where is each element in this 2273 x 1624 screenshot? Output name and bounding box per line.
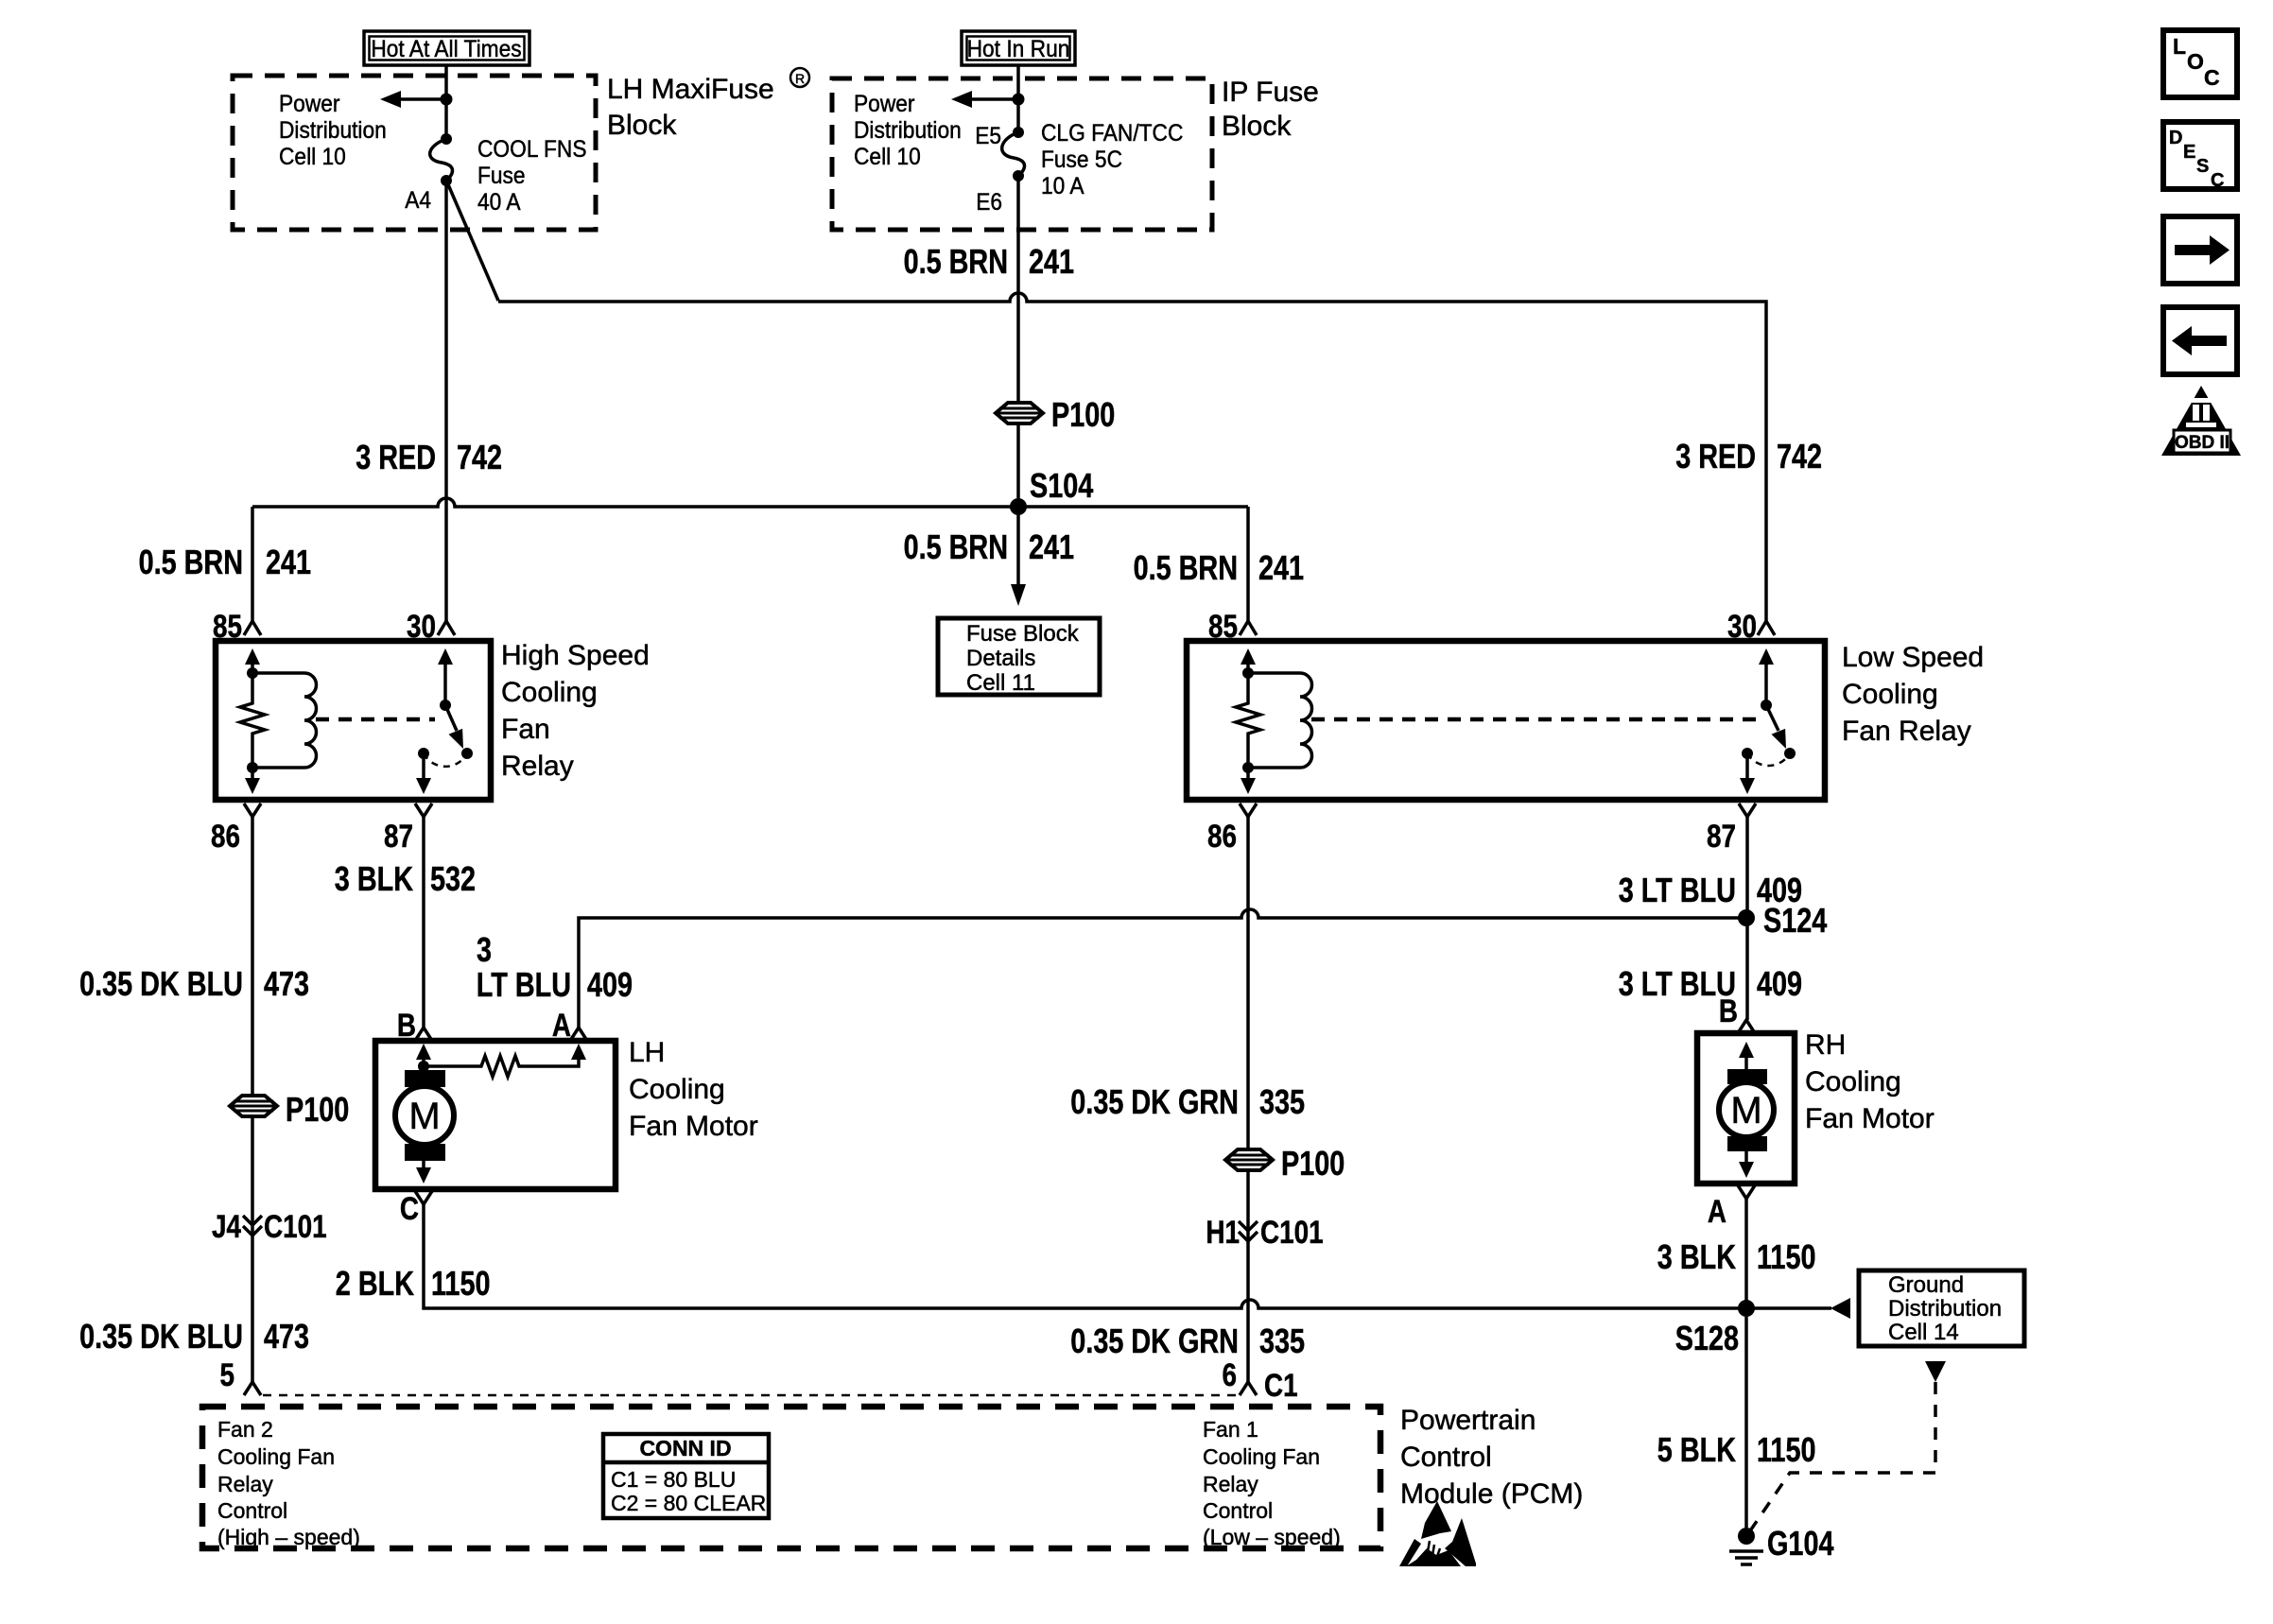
svg-text:(Low – speed): (Low – speed) xyxy=(1203,1525,1341,1549)
wire A4 down to relay 30 xyxy=(444,181,448,622)
svg-text:Relay: Relay xyxy=(217,1472,273,1496)
svg-text:Details: Details xyxy=(966,646,1035,671)
svg-text:0.35 DK BLU: 0.35 DK BLU xyxy=(79,964,243,1003)
svg-text:0.35 DK BLU: 0.35 DK BLU xyxy=(79,1317,243,1356)
wire LH motor A up and right to S124 (3 LT BLU 409, hop over DK GRN wire) xyxy=(579,909,1746,1028)
svg-text:742: 742 xyxy=(457,438,502,476)
svg-text:L: L xyxy=(2173,34,2186,59)
Power Distribution Cell 10 text (LH block) xyxy=(279,91,387,170)
svg-text:2 BLK: 2 BLK xyxy=(336,1264,414,1303)
icon forward arrow box (margin) xyxy=(2163,216,2237,284)
connector pass-through P100 (top) xyxy=(996,395,1115,434)
pin 87 (LS) xyxy=(1707,803,1756,855)
table CONN ID xyxy=(603,1434,769,1518)
relay coil branch (LS) xyxy=(1236,648,1312,794)
value label COOL FNS Fuse 40 A xyxy=(477,136,587,216)
wire label 0.35 DK BLU 473 (upper) xyxy=(79,964,309,1003)
wire S128 down to G104 (5 BLK 1150) xyxy=(1744,1317,1748,1528)
svg-text:C: C xyxy=(400,1191,419,1227)
svg-text:Fuse: Fuse xyxy=(477,163,526,189)
wire from Hot In Run into IP fuse xyxy=(1016,65,1020,132)
svg-text:Fan: Fan xyxy=(501,714,550,745)
fuse CLG FAN/TCC 10 A xyxy=(1002,127,1025,181)
svg-text:Block: Block xyxy=(1222,111,1292,142)
svg-text:Distribution: Distribution xyxy=(854,117,962,144)
icon back arrow box (margin) xyxy=(2163,307,2237,374)
wire label 3 BLK 1150 xyxy=(1657,1237,1816,1276)
svg-text:241: 241 xyxy=(1029,527,1074,566)
svg-text:LH: LH xyxy=(629,1037,665,1068)
relay actuating dashed link (LS) xyxy=(1311,717,1756,722)
Power Distribution Cell 10 text (IP block) xyxy=(854,91,962,170)
svg-text:S104: S104 xyxy=(1030,466,1093,505)
svg-text:Cell 14: Cell 14 xyxy=(1888,1320,1959,1345)
wire E6 down to P100 xyxy=(1016,176,1020,498)
icon LOC box (margin) xyxy=(2163,30,2237,97)
svg-text:C: C xyxy=(2211,170,2224,191)
svg-text:87: 87 xyxy=(384,819,413,855)
svg-text:532: 532 xyxy=(430,859,476,898)
svg-text:Control: Control xyxy=(1203,1498,1273,1523)
svg-text:Control: Control xyxy=(1400,1442,1492,1473)
svg-text:Fan 2: Fan 2 xyxy=(217,1417,273,1442)
motor M1 LH Cooling Fan Motor box xyxy=(375,1041,616,1189)
svg-text:LH MaxiFuse: LH MaxiFuse xyxy=(607,74,774,105)
svg-text:335: 335 xyxy=(1259,1082,1305,1121)
svg-text:30: 30 xyxy=(407,609,436,645)
motor name RH Cooling Fan Motor xyxy=(1805,1029,1935,1134)
svg-text:Ground: Ground xyxy=(1888,1272,1964,1298)
svg-text:RH: RH xyxy=(1805,1029,1846,1061)
svg-text:Cooling: Cooling xyxy=(501,677,598,708)
svg-text:1150: 1150 xyxy=(431,1264,491,1303)
svg-text:1150: 1150 xyxy=(1757,1237,1816,1276)
svg-text:S124: S124 xyxy=(1763,901,1827,940)
wire diagonal from fuse to top feed line xyxy=(447,182,498,301)
wire label 3 RED 742 (right) xyxy=(1675,437,1822,475)
splice S104 xyxy=(1010,466,1093,515)
svg-text:Cooling Fan: Cooling Fan xyxy=(1203,1444,1320,1469)
svg-text:0.5 BRN: 0.5 BRN xyxy=(1134,548,1238,587)
arrow S104 down to Fuse Block Details xyxy=(1011,515,1026,606)
motor M symbol (RH) xyxy=(1719,1042,1774,1178)
motor name LH Cooling Fan Motor xyxy=(629,1037,758,1142)
svg-text:C: C xyxy=(2204,65,2220,90)
svg-text:Fan Motor: Fan Motor xyxy=(629,1111,758,1142)
svg-text:Fan Motor: Fan Motor xyxy=(1805,1103,1935,1134)
wire S104 left branch down to 85 xyxy=(251,507,254,622)
fuse COOL FNS 40 A xyxy=(430,133,453,186)
svg-text:335: 335 xyxy=(1259,1322,1305,1360)
pin A (LH motor) xyxy=(552,1008,587,1044)
svg-text:C101: C101 xyxy=(264,1209,327,1245)
wire label 5 BLK 1150 xyxy=(1657,1430,1816,1469)
svg-text:Hot In Run: Hot In Run xyxy=(967,36,1070,62)
splice S128 xyxy=(1675,1300,1755,1357)
svg-text:Fuse 5C: Fuse 5C xyxy=(1041,147,1122,173)
svg-text:Control: Control xyxy=(217,1498,287,1523)
pin 30 (HS) xyxy=(407,609,455,645)
ground G104 xyxy=(1729,1524,1834,1564)
svg-text:3 BLK: 3 BLK xyxy=(335,859,413,898)
svg-text:COOL FNS: COOL FNS xyxy=(477,136,587,163)
wire label 0.35 DK GRN 335 (upper) xyxy=(1070,1082,1305,1121)
svg-text:E: E xyxy=(2183,142,2195,163)
LH MaxiFuse Block title xyxy=(607,68,809,141)
pin 5 (PCM) xyxy=(220,1357,262,1395)
relay actuating dashed link (HS) xyxy=(316,717,435,722)
value label CLG FAN/TCC Fuse 5C 10 A xyxy=(1041,120,1183,199)
svg-text:E6: E6 xyxy=(976,189,1002,216)
svg-text:5 BLK: 5 BLK xyxy=(1657,1430,1736,1469)
icon DESC box (margin) xyxy=(2163,122,2237,191)
svg-text:0.35 DK GRN: 0.35 DK GRN xyxy=(1070,1082,1239,1121)
svg-text:C1: C1 xyxy=(1264,1368,1298,1404)
node Ground Distribution Cell 14 box xyxy=(1859,1270,2024,1346)
svg-text:Fan Relay: Fan Relay xyxy=(1842,716,1971,747)
svg-text:409: 409 xyxy=(587,965,633,1004)
wire S128 to Ground Distribution arrow xyxy=(1746,1298,1850,1319)
ground ref triangle below box xyxy=(1925,1361,1946,1382)
wire RH motor A down to S128 (3 BLK 1150) xyxy=(1744,1199,1748,1308)
svg-text:1150: 1150 xyxy=(1757,1430,1816,1469)
splice S124 xyxy=(1738,901,1827,940)
svg-text:3 LT BLU: 3 LT BLU xyxy=(1619,871,1736,909)
arrow to Power Distribution xyxy=(951,91,1018,108)
svg-text:5: 5 xyxy=(220,1357,235,1393)
svg-text:Cell 10: Cell 10 xyxy=(854,144,921,170)
svg-text:Power: Power xyxy=(854,91,915,117)
svg-text:LT BLU: LT BLU xyxy=(477,965,571,1004)
junction dot xyxy=(1013,94,1025,106)
svg-text:Fan 1: Fan 1 xyxy=(1203,1417,1258,1442)
relay coil branch (HS): arrow, resistor, coil xyxy=(240,648,317,794)
svg-text:Cooling: Cooling xyxy=(1805,1066,1901,1097)
svg-text:IP Fuse: IP Fuse xyxy=(1222,77,1319,108)
node Fuse Block Details Cell 11 box xyxy=(938,618,1100,696)
svg-text:3 RED: 3 RED xyxy=(356,438,436,476)
junction dot xyxy=(441,94,453,106)
pin 87 (HS) xyxy=(384,803,432,855)
arrow to Power Distribution xyxy=(380,91,446,108)
svg-text:P100: P100 xyxy=(1051,395,1115,434)
svg-text:R: R xyxy=(795,71,805,86)
svg-text:C2 = 80 CLEAR: C2 = 80 CLEAR xyxy=(611,1491,766,1515)
wire HS87 down to LH motor B (3 BLK 532) xyxy=(422,817,425,1028)
connector pass-through P100 (middle) xyxy=(1225,1144,1345,1183)
pin A (RH motor) xyxy=(1708,1185,1755,1230)
svg-text:6: 6 xyxy=(1223,1357,1238,1393)
pin 30 (LS) xyxy=(1727,609,1775,645)
pin C (LH motor) xyxy=(400,1191,432,1227)
relay name High Speed Cooling Fan Relay xyxy=(501,640,650,782)
connector C101 pin J4 xyxy=(212,1209,327,1245)
node Hot At All Times label box xyxy=(364,31,529,65)
wire label 3 RED 742 (left) xyxy=(356,438,502,476)
wire label 0.35 DK GRN 335 (lower) xyxy=(1070,1322,1305,1360)
wire from Hot At All Times into LH fuse xyxy=(444,65,448,139)
svg-text:Cell 10: Cell 10 xyxy=(279,144,346,170)
svg-text:S: S xyxy=(2196,156,2209,177)
pin 86 (LS) xyxy=(1207,803,1257,855)
wire top feed line to right relay 30 (hop over IP wire) xyxy=(498,293,1766,622)
pin 85 (HS) xyxy=(213,609,261,645)
svg-text:C101: C101 xyxy=(1260,1215,1324,1251)
relay switch (LS) xyxy=(1740,648,1796,794)
svg-text:High Speed: High Speed xyxy=(501,640,650,671)
svg-text:CLG FAN/TCC: CLG FAN/TCC xyxy=(1041,120,1183,147)
node Hot In Run label box xyxy=(962,31,1075,65)
svg-text:(High – speed): (High – speed) xyxy=(217,1525,360,1549)
svg-text:C1 = 80 BLU: C1 = 80 BLU xyxy=(611,1467,736,1492)
svg-text:Distribution: Distribution xyxy=(279,117,387,144)
svg-text:30: 30 xyxy=(1727,609,1757,645)
wire label 3 / LT BLU 409 (two lines) xyxy=(477,930,633,1004)
wire label 3 LT BLU 409 (below S124) xyxy=(1619,964,1802,1003)
svg-text:J4: J4 xyxy=(212,1209,241,1245)
svg-text:O: O xyxy=(2187,49,2204,74)
ESD sensitivity symbol xyxy=(1399,1501,1476,1566)
svg-text:40 A: 40 A xyxy=(477,189,521,216)
IP Fuse Block dashed box xyxy=(832,78,1212,230)
svg-text:241: 241 xyxy=(266,543,311,581)
LH MaxiFuse Block dashed box xyxy=(233,76,596,230)
svg-text:Hot At All Times: Hot At All Times xyxy=(371,36,521,62)
svg-text:Cooling: Cooling xyxy=(1842,679,1938,710)
svg-text:Cooling: Cooling xyxy=(629,1074,725,1105)
wire label 3 BLK 532 xyxy=(335,859,476,898)
wire label 0.5 BRN 241 (left, at HS relay 85) xyxy=(139,543,312,581)
icon OBD II triangle (margin) xyxy=(2161,386,2241,456)
motor M symbol (LH) xyxy=(395,1066,454,1183)
connector pass-through P100 (left) xyxy=(230,1090,349,1129)
pin B (LH motor) xyxy=(397,1008,432,1044)
motor M2 RH Cooling Fan Motor box xyxy=(1697,1033,1795,1183)
wire label 0.5 BRN 241 (top) xyxy=(904,242,1075,281)
connector C101 pin H1 xyxy=(1206,1215,1323,1251)
PCM right pin function text (Fan 1) xyxy=(1203,1417,1341,1549)
svg-text:B: B xyxy=(397,1008,416,1044)
relay K2 Low Speed Cooling Fan Relay box xyxy=(1187,641,1825,800)
svg-text:241: 241 xyxy=(1029,242,1074,281)
pin 85 (LS) xyxy=(1208,609,1257,645)
wire label 2 BLK 1150 xyxy=(336,1264,491,1303)
dashed reference path to G104 xyxy=(1751,1382,1935,1529)
svg-text:0.5 BRN: 0.5 BRN xyxy=(904,242,1008,281)
svg-text:CONN ID: CONN ID xyxy=(639,1436,731,1460)
svg-text:10 A: 10 A xyxy=(1041,173,1084,199)
wire label 3 LT BLU 409 (above S124) xyxy=(1619,871,1802,909)
svg-text:3: 3 xyxy=(477,930,492,969)
svg-text:85: 85 xyxy=(1208,609,1238,645)
svg-text:Cooling Fan: Cooling Fan xyxy=(217,1444,335,1469)
svg-text:M: M xyxy=(408,1096,440,1137)
svg-text:M: M xyxy=(1730,1090,1761,1132)
wire HS86 down (0.35 DK BLU 473) xyxy=(251,817,254,1382)
LH motor internal resistor branch xyxy=(416,1044,586,1077)
svg-text:0.5 BRN: 0.5 BRN xyxy=(139,543,243,581)
svg-text:87: 87 xyxy=(1707,819,1736,855)
svg-text:Block: Block xyxy=(607,110,677,141)
svg-text:G104: G104 xyxy=(1767,1524,1834,1563)
svg-text:409: 409 xyxy=(1757,964,1802,1003)
svg-text:241: 241 xyxy=(1258,548,1304,587)
PCM left pin function text (Fan 2) xyxy=(217,1417,360,1549)
wire LS86 down (0.35 DK GRN 335) to pin 6 xyxy=(1246,817,1250,1382)
svg-text:Power: Power xyxy=(279,91,340,117)
svg-text:A4: A4 xyxy=(405,187,431,214)
svg-text:742: 742 xyxy=(1777,437,1822,475)
wire LS87 down to RH motor B (3 LT BLU 409) xyxy=(1745,817,1749,1020)
module name Powertrain Control Module (PCM) xyxy=(1400,1405,1583,1510)
svg-text:Cell 11: Cell 11 xyxy=(966,670,1035,696)
IP Fuse Block title xyxy=(1222,77,1319,142)
svg-text:Low Speed: Low Speed xyxy=(1842,642,1984,673)
wire label 0.5 BRN 241 (below S104) xyxy=(904,527,1075,566)
svg-text:3 BLK: 3 BLK xyxy=(1657,1237,1736,1276)
wire LH motor C down and right to S128 (2 BLK 1150, hop over DK GRN wire) xyxy=(424,1204,1746,1308)
svg-text:Module (PCM): Module (PCM) xyxy=(1400,1478,1583,1510)
module PCM dashed box xyxy=(202,1407,1380,1548)
pin 6 (PCM) xyxy=(1223,1357,1298,1404)
svg-text:H1: H1 xyxy=(1206,1215,1240,1251)
svg-text:D: D xyxy=(2169,128,2182,148)
PCM connector C1 thin dashed line xyxy=(263,1394,1239,1397)
svg-text:473: 473 xyxy=(264,964,309,1003)
wire label 0.35 DK BLU 473 (lower) xyxy=(79,1317,309,1356)
svg-text:Fuse Block: Fuse Block xyxy=(966,621,1080,647)
svg-text:P100: P100 xyxy=(286,1090,349,1129)
wire S104 horizontal to both relays (hop over left fuse wire) xyxy=(252,498,1248,507)
wire label 0.5 BRN 241 (right, at LS relay 85) xyxy=(1134,548,1305,587)
svg-text:3 RED: 3 RED xyxy=(1675,437,1756,475)
relay switch (HS) xyxy=(416,648,473,794)
svg-text:0.5 BRN: 0.5 BRN xyxy=(904,527,1008,566)
svg-text:A: A xyxy=(1708,1194,1726,1230)
relay name Low Speed Cooling Fan Relay xyxy=(1842,642,1984,747)
svg-text:85: 85 xyxy=(213,609,242,645)
svg-text:B: B xyxy=(1719,993,1738,1029)
svg-text:P100: P100 xyxy=(1281,1144,1345,1183)
svg-text:OBD II: OBD II xyxy=(2175,433,2230,453)
svg-text:A: A xyxy=(552,1008,571,1044)
svg-text:Relay: Relay xyxy=(501,751,574,782)
svg-text:0.35 DK GRN: 0.35 DK GRN xyxy=(1070,1322,1239,1360)
svg-text:Relay: Relay xyxy=(1203,1472,1258,1496)
pin 86 (HS) xyxy=(211,803,261,855)
svg-text:Powertrain: Powertrain xyxy=(1400,1405,1536,1436)
svg-text:S128: S128 xyxy=(1675,1319,1739,1357)
svg-text:Distribution: Distribution xyxy=(1888,1296,2002,1322)
svg-text:86: 86 xyxy=(211,819,240,855)
relay K1 High Speed Cooling Fan Relay box xyxy=(216,641,491,800)
svg-text:473: 473 xyxy=(264,1317,309,1356)
svg-text:E5: E5 xyxy=(975,123,1001,149)
wire S104 right branch down to 85 xyxy=(1246,507,1250,622)
pin B (RH motor) xyxy=(1719,993,1755,1033)
svg-text:86: 86 xyxy=(1207,819,1237,855)
